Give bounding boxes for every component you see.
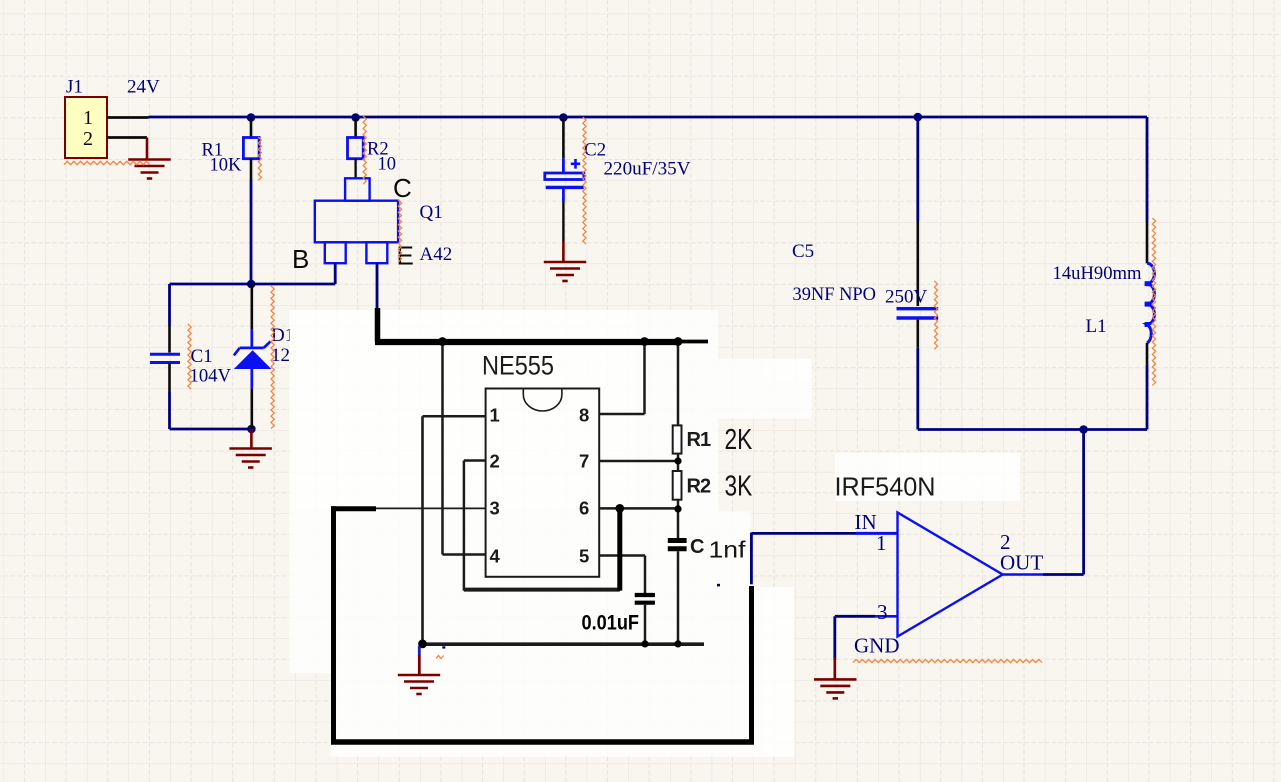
- svg-text:L1: L1: [1086, 316, 1107, 337]
- wire bottom row y429: [170, 428, 252, 431]
- squiggle near C5: [934, 281, 937, 349]
- svg-text:Q1: Q1: [420, 202, 443, 223]
- wire D1 top: [251, 284, 254, 329]
- svg-text:10: 10: [378, 155, 397, 175]
- svg-text:3: 3: [877, 600, 888, 624]
- node junction on bus at C5: [914, 113, 923, 122]
- wire 24V top bus: [149, 116, 1148, 119]
- squiggle right of L1: [1152, 218, 1155, 385]
- wire drop to pin8: [643, 342, 646, 415]
- node bottom-rail junction pin1 column: [418, 640, 427, 649]
- thick wire from Q1 emitter into bitmap: [375, 308, 381, 342]
- wire bus to C2: [562, 117, 565, 158]
- node R1-R2 junction pin7: [674, 457, 681, 464]
- svg-text:1: 1: [83, 107, 93, 129]
- wire bus to C5: [916, 117, 919, 221]
- resistor R2 10: [348, 138, 364, 159]
- svg-text:C2: C2: [584, 140, 606, 161]
- squiggle under GND label: [853, 659, 1042, 662]
- node top-rail junction at pin8 column: [640, 337, 649, 346]
- resistor R2 3K (bitmap): [673, 471, 682, 500]
- wire drop to R1: [677, 342, 680, 426]
- capacitor C2 220uF/35V polarized: [571, 159, 580, 169]
- squiggle right of Q1: [398, 200, 401, 262]
- svg-text:C: C: [393, 173, 412, 203]
- svg-text:GND: GND: [854, 634, 900, 658]
- svg-text:10K: 10K: [210, 156, 243, 176]
- svg-text:C1: C1: [191, 346, 213, 367]
- svg-text:OUT: OUT: [1000, 551, 1043, 575]
- pin 5 stub: [599, 554, 645, 557]
- pin 1 stub: [423, 415, 486, 418]
- blue speck near NE555 gnd: [442, 646, 445, 648]
- capacitor C1 104V: [150, 353, 180, 356]
- wire bitmap bottom rail: [423, 642, 705, 646]
- squiggle near C2: [583, 117, 586, 244]
- wire bottom row y429.5: [918, 428, 1147, 431]
- wire R2 to Q1 collector: [354, 159, 356, 179]
- wire bus to R2: [354, 117, 357, 139]
- wire pin3 thick bracket to gate: [331, 506, 376, 511]
- svg-text:5: 5: [579, 546, 589, 567]
- svg-text:2: 2: [490, 451, 500, 472]
- svg-text:8: 8: [579, 405, 589, 426]
- wire bus to R1: [250, 117, 253, 139]
- svg-text:7: 7: [579, 451, 589, 472]
- pin 3 wire: [835, 615, 875, 618]
- resistor R1 2K (bitmap): [673, 425, 682, 453]
- node junction on bus at R1: [247, 113, 256, 122]
- capacitor C 1nf (bitmap): [668, 538, 687, 543]
- transistor Q1 A42 (package outline): [315, 178, 398, 263]
- blue speck near 1nf: [717, 584, 720, 587]
- svg-text:220uF/35V: 220uF/35V: [604, 159, 691, 180]
- NE555 pasted bitmap circuit: [331, 308, 754, 742]
- svg-text:104V: 104V: [190, 366, 232, 387]
- svg-text:NE555: NE555: [482, 351, 554, 381]
- svg-text:3K: 3K: [725, 471, 753, 503]
- node bottom-rail junction C column: [674, 640, 681, 647]
- svg-text:1: 1: [490, 405, 500, 426]
- svg-text:J1: J1: [66, 77, 83, 98]
- node pin6 junction: [615, 504, 624, 513]
- node bottom-rail junction 0.01uF column: [641, 640, 648, 647]
- pin 8 stub: [599, 413, 644, 416]
- inductor L1 14uH90mm: [1147, 263, 1154, 343]
- svg-text:C5: C5: [792, 241, 814, 262]
- wire pin1 gnd column: [421, 416, 424, 644]
- squiggle under J1: [64, 161, 150, 164]
- wire bitmap top rail: [375, 339, 679, 345]
- svg-text:4: 4: [490, 546, 501, 567]
- wire pin5 branch + capacitor 0.01uF: [644, 556, 647, 594]
- wire left branch down to C1: [168, 284, 171, 326]
- svg-text:1: 1: [876, 531, 887, 555]
- pin 2 stub: [464, 459, 486, 462]
- wire R1 to node B row: [250, 159, 253, 180]
- svg-text:39NF NPO: 39NF NPO: [793, 284, 877, 305]
- svg-text:14uH90mm: 14uH90mm: [1053, 263, 1142, 284]
- svg-text:2: 2: [83, 128, 93, 150]
- mosfet IRF540N (triangle symbol): [898, 513, 1003, 637]
- pin 1 IN wire: [751, 532, 856, 535]
- svg-text:6: 6: [579, 498, 589, 519]
- pin 6 stub: [599, 507, 678, 510]
- svg-text:B: B: [292, 244, 309, 274]
- wire pin2 loop: [463, 461, 466, 591]
- wire vcc drop to pin4 column: [441, 342, 444, 555]
- pin J1.2: [107, 136, 147, 139]
- resistor R1 10K: [243, 138, 259, 159]
- svg-text:250V: 250V: [885, 287, 928, 308]
- pin J1.1: [107, 116, 149, 119]
- svg-text:R2: R2: [687, 476, 711, 498]
- wire L1 bottom: [1146, 343, 1149, 364]
- wire Q1 emitter down: [376, 263, 379, 309]
- svg-text:IN: IN: [855, 510, 877, 534]
- node R2-C junction pin6: [674, 505, 681, 512]
- ground at J1 pin 2: [146, 138, 149, 160]
- pin 7 stub: [599, 460, 678, 463]
- wire C1 bottom: [168, 364, 171, 393]
- zener diode D1: [234, 341, 271, 355]
- svg-text:2K: 2K: [725, 424, 753, 456]
- node junction on bus at C2: [559, 113, 568, 122]
- ground below NE555 (over bitmap): [418, 646, 421, 655]
- node junction on bus at R2: [351, 113, 360, 122]
- wire C5 bottom: [916, 320, 919, 348]
- svg-text:C: C: [690, 536, 704, 558]
- ground below D1: [250, 429, 253, 449]
- white background of pasted NE555 bitmap image: [290, 310, 719, 673]
- svg-text:1nf: 1nf: [709, 537, 747, 563]
- squiggle near C1: [188, 324, 191, 389]
- wire L1 right side top: [1146, 117, 1149, 222]
- connector J1: [65, 97, 107, 158]
- squiggle right of R1: [258, 137, 261, 180]
- svg-text:IRF540N: IRF540N: [835, 472, 936, 502]
- wire C2 bottom to ground: [562, 189, 565, 202]
- op IC NE555 body: [486, 389, 600, 577]
- node top-rail junction at R1 column: [674, 337, 683, 346]
- svg-text:0.01uF: 0.01uF: [582, 612, 640, 635]
- capacitor C5 39NF NPO 250V: [897, 307, 939, 310]
- wire Q1 base down: [334, 263, 337, 284]
- squiggle right of D1: [271, 286, 274, 429]
- pin 4 stub: [443, 553, 486, 556]
- tiny squiggle near NE555 ground: [436, 656, 444, 659]
- svg-text:R1: R1: [687, 429, 711, 451]
- node top-rail junction at pin4 column: [438, 337, 447, 346]
- wire base row y284: [170, 283, 336, 286]
- pin number labels 1-4 and 8-5: [490, 405, 590, 567]
- wire D1 bottom: [250, 368, 253, 389]
- svg-text:3: 3: [490, 498, 500, 519]
- squiggle right of R2: [363, 116, 366, 184]
- pin 2 OUT wire: [1003, 573, 1043, 576]
- ground at IRF540N: [833, 658, 836, 680]
- pin 3 stub: [376, 507, 486, 509]
- svg-text:A42: A42: [420, 244, 453, 265]
- svg-text:24V: 24V: [127, 77, 160, 98]
